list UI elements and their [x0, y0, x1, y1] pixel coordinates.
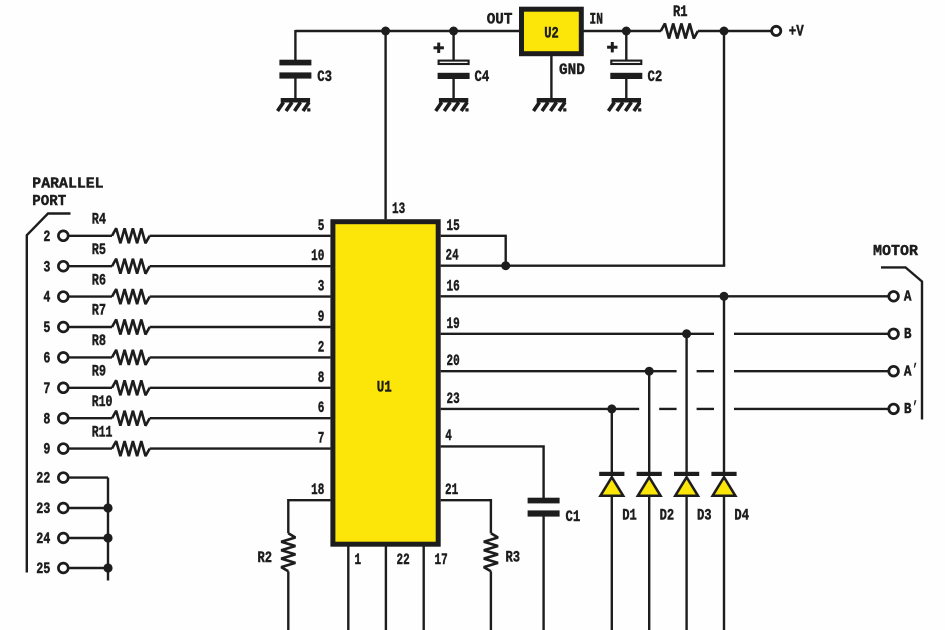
- svg-text:R11: R11: [92, 423, 113, 441]
- resistor R5: [92, 241, 150, 274]
- ground for U2: [534, 98, 567, 112]
- diode D4: [711, 472, 749, 525]
- port pin 9: [43, 441, 68, 459]
- motor connector outline: [881, 267, 922, 419]
- diode D2: [637, 472, 675, 525]
- wire R4 to U1 pin 5: [150, 235, 331, 237]
- pin label 19: [447, 315, 460, 333]
- svg-text:8: 8: [318, 369, 325, 387]
- svg-text:15: 15: [447, 217, 460, 235]
- svg-text:’: ’: [912, 400, 917, 417]
- svg-text:+V: +V: [789, 23, 805, 41]
- svg-text:B: B: [904, 327, 912, 343]
- wire D2 cathode: [648, 371, 650, 473]
- svg-text:IN: IN: [590, 11, 603, 29]
- node bus 24: [103, 533, 112, 542]
- wire port 23 to bus: [69, 507, 108, 509]
- terminal motor A: [889, 290, 912, 306]
- wire port 24 to bus: [69, 537, 108, 539]
- node A junction: [720, 292, 729, 301]
- svg-text:22: 22: [397, 551, 410, 569]
- svg-text:R2: R2: [258, 549, 273, 567]
- pin label 20: [447, 352, 460, 370]
- wire port 2 to R4: [69, 235, 112, 237]
- resistor R8: [92, 332, 150, 365]
- label OUT: [487, 11, 513, 29]
- ground for C2: [608, 98, 641, 112]
- svg-text:PORT: PORT: [32, 194, 66, 210]
- port pin 4: [43, 289, 68, 307]
- label PARALLEL: [32, 177, 103, 193]
- svg-text:25: 25: [36, 560, 50, 578]
- svg-text:19: 19: [447, 315, 460, 333]
- wire pin 4 to C1: [441, 446, 544, 498]
- wire port 9 to R11: [69, 447, 112, 449]
- svg-text:7: 7: [318, 430, 325, 448]
- svg-text:A: A: [904, 290, 912, 306]
- node +V junction: [720, 27, 729, 36]
- svg-text:R5: R5: [92, 241, 106, 259]
- port pin 24: [36, 530, 68, 548]
- svg-text:R1: R1: [673, 3, 688, 21]
- node B' junction: [607, 404, 616, 413]
- svg-text:9: 9: [43, 441, 50, 459]
- wire R8 to U1 pin 2: [150, 356, 331, 358]
- svg-text:23: 23: [36, 500, 50, 518]
- svg-text:D1: D1: [622, 506, 637, 524]
- node B junction: [682, 329, 691, 338]
- wire pin 21 to R3: [441, 500, 491, 533]
- resistor R6: [92, 271, 150, 304]
- pin label 22 bottom: [397, 551, 410, 569]
- wire D3 cathode: [685, 334, 687, 473]
- pin label 24: [446, 247, 459, 265]
- svg-text:OUT: OUT: [487, 11, 513, 29]
- wire pin 17 bottom: [423, 546, 425, 630]
- svg-text:U1: U1: [377, 378, 392, 396]
- pin label 13: [392, 200, 405, 218]
- svg-text:20: 20: [447, 352, 460, 370]
- wire U2 to R1: [582, 30, 662, 32]
- wire pin 23 to motor B': [441, 408, 888, 410]
- wire port 22 to bus: [69, 476, 108, 478]
- resistor R7: [92, 302, 150, 335]
- node bus 25: [103, 563, 112, 572]
- wire R3 down: [490, 571, 492, 630]
- svg-text:17: 17: [435, 551, 448, 569]
- resistor R1: [661, 3, 698, 39]
- wire pin 16 to motor A: [441, 295, 888, 297]
- pin label 17 bottom: [435, 551, 448, 569]
- svg-text:2: 2: [318, 338, 325, 356]
- capacitor C4: [434, 27, 490, 100]
- wire ground bus: [107, 478, 109, 581]
- label GND: [559, 61, 585, 79]
- pin label 10: [311, 247, 324, 265]
- capacitor C2: [607, 27, 662, 100]
- wire port 5 to R7: [69, 326, 112, 328]
- IC U1: [333, 222, 438, 545]
- wire C1 down: [542, 516, 544, 630]
- wire D4 anode: [723, 496, 725, 630]
- svg-text:C2: C2: [648, 68, 663, 86]
- terminal +V: [772, 23, 805, 41]
- ground for C3: [278, 98, 311, 112]
- svg-text:16: 16: [447, 277, 460, 295]
- svg-text:R3: R3: [506, 549, 521, 567]
- wire R5 to U1 pin 10: [150, 265, 331, 267]
- pin label 4: [445, 427, 452, 445]
- wire pin 19 to motor B: [441, 333, 888, 335]
- wire port 4 to R6: [69, 295, 112, 297]
- node A' junction: [645, 367, 654, 376]
- wire U2 GND: [550, 54, 552, 99]
- port pin 2: [43, 228, 68, 246]
- svg-text:MOTOR: MOTOR: [873, 244, 918, 260]
- pin label 9: [318, 308, 325, 326]
- port pin 25: [36, 560, 68, 578]
- wire top rail C3 to U2: [295, 30, 521, 32]
- resistor R9: [92, 363, 150, 396]
- svg-text:4: 4: [445, 427, 452, 445]
- pin label 8: [318, 369, 325, 387]
- wire D1 anode: [611, 496, 613, 630]
- svg-text:U2: U2: [544, 25, 559, 43]
- node pin13 rail junction: [381, 27, 390, 36]
- label PORT: [32, 194, 66, 210]
- svg-text:B: B: [904, 402, 912, 418]
- svg-text:C4: C4: [475, 68, 490, 86]
- wire +V drop to pin24 net: [723, 31, 725, 266]
- wire pin 22 bottom: [385, 546, 387, 630]
- wire D2 anode: [648, 496, 650, 630]
- svg-text:24: 24: [446, 247, 459, 265]
- svg-text:R9: R9: [92, 363, 106, 381]
- pin label 1 bottom: [355, 551, 362, 569]
- svg-text:R8: R8: [92, 332, 106, 350]
- wire D1 cathode: [611, 409, 613, 473]
- svg-text:18: 18: [311, 481, 324, 499]
- label IN: [590, 11, 603, 29]
- svg-text:23: 23: [447, 390, 460, 408]
- svg-text:R7: R7: [92, 302, 106, 320]
- svg-text:R4: R4: [92, 211, 106, 229]
- svg-text:D3: D3: [697, 506, 712, 524]
- terminal motor B: [889, 327, 912, 343]
- svg-text:8: 8: [43, 410, 50, 428]
- port pin 22: [36, 470, 68, 488]
- wire R9 to U1 pin 8: [150, 387, 331, 389]
- terminal motor B-prime: [889, 400, 918, 419]
- svg-text:1: 1: [355, 551, 362, 569]
- wire port 6 to R8: [69, 356, 112, 358]
- wire R1 to +V: [698, 30, 771, 32]
- svg-text:D4: D4: [734, 506, 749, 524]
- port pin 23: [36, 500, 68, 518]
- ground for C4: [436, 98, 469, 112]
- pin label 2: [318, 338, 325, 356]
- svg-text:C3: C3: [317, 68, 332, 86]
- resistor R11: [92, 423, 150, 456]
- wire R6 to U1 pin 3: [150, 295, 331, 297]
- parallel port connector outline: [27, 214, 71, 573]
- wire D4 cathode: [723, 296, 725, 473]
- wire pin 15: [441, 236, 506, 266]
- wire D3 anode: [685, 496, 687, 630]
- svg-text:7: 7: [43, 380, 50, 398]
- wire pin 24 net: [441, 265, 726, 267]
- svg-text:A: A: [904, 365, 912, 381]
- pin label 5: [318, 217, 325, 235]
- pin label 6: [318, 399, 325, 417]
- port pin 8: [43, 410, 68, 428]
- diode D3: [674, 472, 712, 525]
- svg-text:13: 13: [392, 200, 405, 218]
- pin label 3: [318, 278, 325, 296]
- svg-text:21: 21: [445, 481, 458, 499]
- port pin 5: [43, 319, 68, 337]
- diode D1: [599, 472, 637, 525]
- svg-text:2: 2: [43, 228, 50, 246]
- wire pin 18 to R2: [288, 500, 330, 533]
- pin label 18: [311, 481, 324, 499]
- wire R7 to U1 pin 9: [150, 326, 331, 328]
- node pin15-24 junction: [501, 261, 510, 270]
- wire R2 down: [287, 571, 289, 630]
- node bus 23: [103, 503, 112, 512]
- wire port 7 to R9: [69, 387, 112, 389]
- svg-text:’: ’: [912, 362, 917, 379]
- resistor R10: [92, 393, 150, 426]
- svg-text:6: 6: [318, 399, 325, 417]
- svg-text:GND: GND: [559, 61, 585, 79]
- svg-text:22: 22: [36, 470, 50, 488]
- pin label 16: [447, 277, 460, 295]
- svg-text:3: 3: [43, 258, 50, 276]
- svg-text:PARALLEL: PARALLEL: [32, 177, 103, 193]
- svg-text:R6: R6: [92, 271, 106, 289]
- svg-text:C1: C1: [566, 508, 581, 526]
- capacitor C1: [528, 498, 581, 526]
- pin label 21: [445, 481, 458, 499]
- svg-text:5: 5: [318, 217, 325, 235]
- svg-text:9: 9: [318, 308, 325, 326]
- wire port 8 to R10: [69, 417, 112, 419]
- svg-text:3: 3: [318, 278, 325, 296]
- svg-text:10: 10: [311, 247, 324, 265]
- terminal motor A-prime: [889, 362, 918, 381]
- port pin 7: [43, 380, 68, 398]
- wire R11 to U1 pin 7: [150, 447, 331, 449]
- label MOTOR: [873, 244, 918, 260]
- wire pin 20 to motor A': [441, 370, 888, 372]
- svg-text:R10: R10: [92, 393, 113, 411]
- wire port 3 to R5: [69, 265, 112, 267]
- port pin 3: [43, 258, 68, 276]
- svg-text:6: 6: [43, 350, 50, 368]
- wire pin 13: [384, 31, 386, 219]
- svg-text:D2: D2: [660, 506, 675, 524]
- wire pin 1 bottom: [347, 546, 349, 630]
- svg-text:4: 4: [43, 289, 50, 307]
- pin label 23: [447, 390, 460, 408]
- resistor R3: [484, 533, 520, 571]
- voltage regulator U2: [522, 9, 582, 54]
- port pin 6: [43, 350, 68, 368]
- svg-text:24: 24: [36, 530, 50, 548]
- capacitor C3: [279, 30, 332, 99]
- wire port 25 to bus: [69, 567, 108, 569]
- pin label 7: [318, 430, 325, 448]
- resistor R4: [92, 211, 150, 244]
- pin label 15: [447, 217, 460, 235]
- wire R10 to U1 pin 6: [150, 417, 331, 419]
- svg-text:5: 5: [43, 319, 50, 337]
- resistor R2: [258, 533, 296, 571]
